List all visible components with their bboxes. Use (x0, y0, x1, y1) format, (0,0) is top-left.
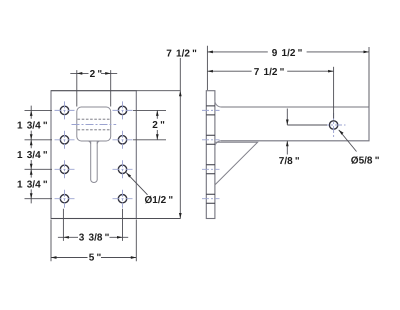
leader diameter 1/2: line (126, 173, 147, 195)
hole A1 (60, 106, 68, 114)
hole B3 (118, 165, 126, 173)
dimension 7/8: upper arrow line (286, 109, 288, 126)
gusset side view (215, 142, 258, 185)
hidden line slot top (78, 118, 111, 120)
dimension 1 3/4 rows: dim line (30, 106, 32, 204)
side view hole centerline row3 (202, 168, 220, 170)
tube weld fillet bottom (215, 141, 221, 148)
hole B1 (118, 106, 126, 114)
hole A4 centerlines (55, 190, 75, 208)
hole A2 centerlines (55, 131, 75, 149)
hole A2 (60, 136, 68, 144)
dimension 7 1/2 side: arrows (207, 70, 213, 73)
dimension 7/8: lower arrow line (286, 141, 288, 155)
dimension 7 1/2 side: dim line (207, 70, 333, 72)
tube hole centerlines (322, 113, 346, 138)
svg-text:5": 5" (89, 252, 102, 263)
dimension 9 1/2: extension lines (207, 46, 369, 107)
side view hole centerline row1 (202, 109, 220, 111)
dimension 1 3/4 rows: extension lines (25, 110, 53, 198)
dimension 7 1/2 side: extension line to hole (333, 67, 335, 119)
dimension 1 3/4 arrows (30, 110, 33, 116)
svg-text:1 3/4": 1 3/4" (17, 179, 48, 190)
dimension 7 1/2 height: arrows (179, 91, 182, 97)
dimension 7/8: reference line at hole center (287, 124, 327, 126)
svg-text:1 3/4": 1 3/4" (17, 150, 48, 161)
tube hole side view (329, 121, 337, 129)
dimension 7 1/2 height: extension lines (51, 91, 181, 219)
hole A3 (60, 165, 68, 173)
svg-text:Ø5/8": Ø5/8" (351, 156, 380, 167)
dimension 2 inch top: dim line (70, 72, 117, 74)
tube weld fillet top (215, 101, 221, 108)
hole B2 centerlines (113, 131, 133, 149)
leader diameter 5/8: arrow (339, 130, 344, 135)
dimension 3 3/8: dim line (58, 236, 128, 238)
dimension 9 1/2: dim line (207, 51, 369, 53)
hole B3 centerlines (113, 160, 133, 178)
dimension 5 inch: arrows (51, 256, 57, 259)
dimension 2 inch right: extension lines (133, 110, 166, 139)
svg-text:2": 2" (152, 120, 165, 131)
svg-text:1 3/4": 1 3/4" (17, 121, 48, 132)
tube side view (221, 107, 369, 141)
svg-text:Ø1/2": Ø1/2" (145, 195, 174, 206)
side view hole ticks row2 (206, 135, 215, 144)
dimension 2 inch top: extension lines (77, 70, 111, 106)
hole B4 centerlines (113, 190, 133, 208)
svg-text:2": 2" (90, 69, 103, 80)
hole A1 centerlines (55, 101, 75, 119)
tube end (channel) front view (77, 107, 111, 141)
dimension 2 inch top: arrows (77, 72, 83, 75)
hidden line slot bottom (78, 129, 111, 131)
hole A4 (60, 195, 68, 203)
dimension 2 inch right: arrows (156, 110, 159, 116)
side view hole centerline row4 (202, 198, 220, 200)
leader diameter 5/8: line (339, 130, 357, 152)
gusset stem fillets (88, 141, 101, 144)
slot centerline (72, 124, 117, 126)
side view hole ticks row4 (206, 194, 215, 203)
dimension 3 3/8: arrows (63, 236, 69, 239)
leader diameter 1/2: arrow (126, 173, 131, 178)
gusset front view (stem) (91, 141, 98, 183)
dimension 2 inch right: dim line (156, 110, 158, 139)
dimension 7/8: lower arrow (286, 141, 289, 147)
dimension 5 inch: extension lines (51, 220, 136, 262)
hole A3 centerlines (55, 160, 75, 178)
hole B4 (118, 195, 126, 203)
svg-text:7/8": 7/8" (279, 156, 300, 167)
hole B1 centerlines (113, 101, 133, 119)
dimension 5 inch: dim line (51, 257, 136, 259)
side view hole ticks row1 (206, 106, 215, 115)
plate front view outline (51, 91, 136, 219)
dimension 3 3/8: extension lines (63, 209, 122, 241)
svg-text:9 1/2": 9 1/2" (272, 48, 303, 59)
plate side view outline (206, 91, 215, 219)
svg-text:7 1/2": 7 1/2" (254, 67, 285, 78)
hole B2 (118, 136, 126, 144)
dimension 7 1/2 height: dim line (179, 58, 181, 219)
dimension 9 1/2: arrows (207, 51, 213, 54)
dimension 7/8: upper arrow (286, 120, 289, 126)
svg-text:7 1/2": 7 1/2" (166, 49, 197, 60)
side view hole ticks row3 (206, 165, 215, 174)
svg-text:3 3/8": 3 3/8" (79, 232, 110, 243)
side view hole centerline row2 (202, 139, 220, 141)
